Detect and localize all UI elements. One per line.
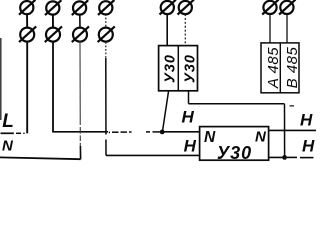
test terminal box (UZO cells) [159,46,198,91]
wire RCD out N to junction [269,156,285,158]
overshoot dash [290,105,295,107]
terminal 3 upper circle [72,0,88,15]
wire terminal4 down [105,42,107,58]
wire right vertical down to N junction [284,104,286,158]
wire terminal2 horizontal to right [52,131,108,133]
L wire junction to RCD box [162,131,200,133]
N bus line [0,157,81,159]
meter aux terminal M2 circle [178,0,194,15]
wire terminal4 link [105,14,107,28]
test box divider [177,46,179,91]
wire terminal3 down to N bus [79,41,81,146]
L line dash-dot to terminal1 [16,132,21,134]
wire terminal1 link [26,14,28,28]
wire cell2 horizontal to right [188,103,284,105]
wire terminal4 horizontal to RCD box [106,154,200,156]
L line dash-dot from terminal4 to junction [109,131,110,133]
svg-text:Н: Н [184,137,197,156]
L line start underline [1,132,14,134]
scan artifact left edge [0,38,2,120]
terminal 1 upper circle [19,0,35,15]
svg-text:A 485: A 485 [265,47,282,89]
wire test box cell1 down to L junction [162,91,168,132]
svg-text:Н: Н [302,137,315,156]
svg-text:Н: Н [182,107,195,126]
svg-text:L: L [2,111,14,132]
junction dot on L line [160,130,165,135]
wire terminal3 link [79,14,81,28]
terminal 4 lower circle [98,26,115,42]
svg-text:У30: У30 [162,54,178,83]
terminal 4 upper circle [98,0,114,15]
svg-text:Н: Н [300,110,313,129]
wire terminal1 down to L line [26,41,28,134]
scan gap on terminal4 wire [105,135,107,140]
svg-text:У30: У30 [217,143,252,163]
wire terminal2 down [52,41,54,132]
wire M1 down to test box [166,14,168,46]
RS485 terminal A circle [262,0,278,14]
N out dashes to right edge [287,156,297,158]
wire B down to 485 box [286,14,288,43]
RS485 terminal B circle [279,0,295,14]
wire terminal2 link [52,14,54,28]
terminal 2 upper circle [45,0,61,15]
terminal 2 lower circle [45,26,62,42]
svg-text:N: N [255,128,267,145]
terminal 1 lower circle [19,26,36,42]
terminal 3 lower circle [72,26,89,42]
wire A down to 485 box [269,14,271,43]
485 box divider [279,43,281,93]
svg-text:В 485: В 485 [284,46,301,88]
svg-text:У30: У30 [182,54,198,83]
wire M2 down to test box [184,14,186,46]
RCD box (UZO) [200,127,269,161]
svg-text:N: N [2,138,14,155]
wire RCD out phase to right edge [269,129,316,131]
wire test box cell2 down [188,91,190,104]
meter aux terminal M1 circle [160,0,176,15]
RS485 interface box [261,43,299,93]
junction dot N out [282,155,287,160]
svg-text:N: N [204,129,216,146]
